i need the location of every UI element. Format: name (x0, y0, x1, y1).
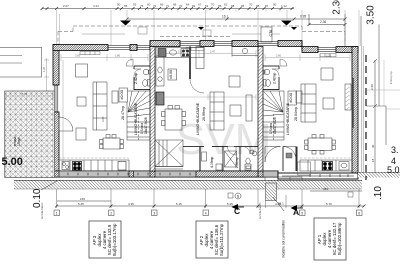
top wall AP1 right band (302, 47, 318, 53)
AP3 sofa (93, 82, 107, 130)
svg-text:2.47: 2.47 (210, 50, 216, 54)
AP1 stove (323, 162, 333, 171)
main bottom dim line (57, 205, 364, 207)
svg-text:4.35: 4.35 (128, 202, 134, 206)
AP2 armchair (229, 76, 240, 87)
svg-text:1.12: 1.12 (281, 4, 287, 8)
AP1 sink (339, 162, 349, 171)
svg-text:2.30: 2.30 (332, 0, 343, 15)
AP3 WC walls (134, 66, 150, 90)
top wall middle raised band (150, 41, 180, 47)
entry doors (265, 147, 281, 163)
svg-text:26.99mp: 26.99mp (202, 107, 206, 121)
svg-text:SVM: SVM (176, 115, 271, 164)
svg-text:55: 55 (133, 3, 137, 7)
AP1 WC walls (263, 66, 279, 90)
kitchen upper cabinets dashed (59, 157, 129, 159)
svg-text:98: 98 (231, 4, 235, 8)
AP2 coffee table (230, 105, 241, 116)
svg-text:66: 66 (160, 3, 164, 7)
svg-text:5.15: 5.15 (176, 202, 182, 206)
svg-text:1: 1 (56, 212, 58, 216)
left vertical dim (44, 58, 49, 91)
AP3 coffee table (77, 97, 86, 106)
AP3 level box (119, 88, 128, 102)
svg-text:3.: 3. (391, 145, 399, 155)
porch foundation (266, 183, 277, 201)
svg-text:2.42mp: 2.42mp (273, 73, 277, 84)
svg-text:16.1: 16.1 (222, 15, 228, 19)
AP2 kitchen counter top (156, 48, 204, 58)
svg-text:90: 90 (273, 3, 277, 7)
AP1 tv unit (345, 84, 351, 110)
svg-text:5.45: 5.45 (78, 202, 84, 206)
section marker C (232, 204, 245, 216)
svg-text:16x17.5x28: 16x17.5x28 (273, 117, 277, 134)
svg-text:2.36: 2.36 (320, 20, 326, 24)
svg-text:Su(b)=103.17mp: Su(b)=103.17mp (112, 223, 117, 256)
svg-text:1.80: 1.80 (115, 54, 121, 58)
AP2 stairs lower flight (155, 140, 183, 169)
svg-text:5.00: 5.00 (2, 156, 23, 168)
svg-text:2.60: 2.60 (276, 54, 282, 58)
svg-text:72: 72 (153, 4, 157, 8)
svg-text:3.95: 3.95 (101, 116, 105, 122)
soil hatch band (14, 181, 362, 190)
svg-text:3: 3 (153, 212, 155, 216)
AP1 armchair (321, 68, 333, 80)
table AP1 (314, 218, 346, 260)
svg-text:LIVING+BUCATARIE: LIVING+BUCATARIE (196, 102, 200, 135)
AP2 sofa (210, 92, 224, 130)
svg-text:90: 90 (117, 3, 121, 7)
AP1 WC fixtures (264, 69, 271, 86)
svg-text:71: 71 (166, 4, 170, 8)
svg-text:87: 87 (265, 4, 269, 8)
AP3 armchair (76, 64, 88, 77)
svg-text:LIVING+BUCATARIE: LIVING+BUCATARIE (134, 102, 138, 135)
left road lines (0, 55, 22, 57)
svg-text:67: 67 (198, 3, 202, 7)
left exterior wall (53, 45, 59, 86)
roof overhang dashed outline (58, 26, 345, 46)
svg-text:2.42mp: 2.42mp (134, 73, 138, 84)
top dimension ticks (41, 7, 294, 10)
AP1 level box (288, 91, 297, 105)
shoe cabinet (286, 153, 292, 158)
party wall 2 (258, 47, 263, 172)
svg-text:limita prop.: limita prop. (389, 70, 393, 84)
svg-text:64: 64 (186, 3, 190, 7)
svg-text:165: 165 (80, 197, 85, 201)
svg-text:sort de beton: sort de beton (40, 202, 44, 219)
svg-text:4: 4 (205, 212, 207, 216)
svg-text:70: 70 (249, 3, 253, 7)
right vertical dim lines (309, 14, 384, 177)
svg-text:4.40: 4.40 (275, 202, 281, 206)
AP2 dining table (162, 106, 186, 131)
AP1 coffee table (323, 98, 334, 109)
AP2 bath fixtures (202, 151, 257, 168)
party wall foundations through bottom wall (150, 171, 155, 177)
porch slab (298, 162, 311, 175)
svg-text:Su(b)=102.88mp: Su(b)=102.88mp (337, 222, 342, 255)
section marker A (291, 205, 304, 217)
left neighbour rectangle (0, 47, 42, 77)
AP1 WC door (272, 69, 279, 77)
fence double line right (362, 46, 364, 172)
right exterior wall (352, 47, 358, 178)
AP2 bath extra fixtures (216, 150, 254, 170)
svg-text:62: 62 (224, 3, 228, 7)
svg-text:0.95: 0.95 (300, 15, 306, 19)
window niche hatch AP1 (346, 87, 350, 110)
section circle S (235, 193, 241, 199)
svg-text:18: 18 (371, 158, 375, 162)
AP1 cabinet (296, 91, 302, 103)
dark glazing strip in right wall (352, 78, 354, 128)
svg-text:88: 88 (256, 4, 260, 8)
porch right wall (296, 147, 298, 172)
svg-text:CTA: CTA (269, 29, 273, 37)
svg-text:63: 63 (205, 4, 209, 8)
AP3 WC fixtures (143, 69, 150, 86)
neighbour outline right (366, 106, 386, 145)
svg-text:65: 65 (124, 4, 128, 8)
svg-text:5.25: 5.25 (227, 202, 233, 206)
svg-text:6: 6 (358, 212, 360, 216)
svg-text:.10: .10 (373, 186, 384, 200)
svg-text:1.20: 1.20 (42, 66, 46, 72)
interior dimension chains (59, 50, 350, 168)
svg-text:30: 30 (371, 144, 375, 148)
svg-text:69: 69 (192, 4, 196, 8)
AP1 kitchen counter (300, 160, 352, 171)
svg-text:70: 70 (179, 4, 183, 8)
north / vent triangles (120, 21, 131, 26)
AP3 WC door (134, 69, 141, 77)
svg-text:sort de beton: sort de beton (258, 202, 262, 219)
svg-text:95: 95 (241, 4, 245, 8)
svg-text:68: 68 (173, 3, 177, 7)
right terrain (358, 172, 400, 174)
svg-text:3.50: 3.50 (366, 5, 377, 25)
AP2 shower (225, 151, 237, 167)
AP1 sofa (301, 84, 316, 122)
radiators (80, 48, 336, 57)
AP3 stove (73, 162, 82, 171)
AP2 hall door arc (190, 79, 204, 93)
AP3 cabinet (112, 91, 118, 103)
AP2 kitchen counter right (196, 47, 258, 69)
svg-text:75: 75 (140, 4, 144, 8)
interior door arcs (228, 147, 237, 156)
AP1 stairs (263, 91, 284, 140)
svg-text:Su(b)=111.27mp: Su(b)=111.27mp (219, 223, 224, 256)
AP2 bath block (183, 147, 258, 172)
svg-text:65: 65 (218, 4, 222, 8)
AP3 kitchen counter (59, 160, 129, 171)
property dashed line right (365, 55, 367, 180)
CTA chimney label box (261, 27, 272, 42)
terrace paving (5, 91, 55, 178)
AP3 terrace door arc (59, 117, 73, 131)
svg-text:60: 60 (147, 3, 151, 7)
bottom wall (53, 171, 278, 177)
table AP2 (196, 221, 228, 258)
svg-text:16x17.5x28: 16x17.5x28 (144, 117, 148, 134)
svg-text:2: 2 (110, 212, 112, 216)
party wall 1 (150, 47, 155, 172)
svg-text:±0.00: ±0.00 (119, 89, 124, 100)
terrain line (14, 180, 362, 182)
bottom window mullions (68, 173, 348, 178)
AP2 kitchen tall unit (156, 92, 164, 105)
AP3 fridge (118, 162, 126, 171)
svg-text:2.50mp: 2.50mp (235, 157, 239, 168)
terrace dim line (6, 95, 53, 97)
AP3 stairs (127, 91, 150, 140)
svg-text:incalzire sol cu termosifon: incalzire sol cu termosifon (282, 220, 286, 258)
AP3 side table (76, 128, 86, 140)
svg-text:4.09mp: 4.09mp (210, 157, 214, 168)
svg-text:±0.00: ±0.00 (288, 92, 293, 103)
svg-text:LIVING+BUCATARIE: LIVING+BUCATARIE (286, 102, 290, 135)
svg-text:5.70: 5.70 (326, 202, 332, 206)
AP2 partition wall (189, 47, 191, 80)
small label boxes above walls (138, 27, 147, 34)
AP2 wc fixtures (158, 67, 162, 81)
neighbour horizontals (367, 89, 400, 91)
svg-text:28.04mp: 28.04mp (294, 107, 298, 121)
top dimension tiny numbers (63, 3, 287, 9)
svg-text:2.60: 2.60 (370, 84, 374, 90)
step between bands (149, 41, 151, 51)
sub dim line (57, 200, 111, 202)
AP3 dining table (100, 135, 124, 150)
left wall window (54, 85, 58, 112)
grid extension lines (57, 189, 360, 208)
svg-text:70: 70 (211, 3, 215, 7)
svg-text:5.0: 5.0 (387, 165, 400, 175)
AP2 tv unit (246, 95, 252, 121)
svg-text:3.65: 3.65 (75, 54, 81, 58)
top extension lines (57, 10, 360, 46)
AP1 dining table (305, 135, 336, 155)
svg-text:5.02: 5.02 (22, 92, 28, 96)
grid bubbles (54, 210, 362, 216)
utility bottom wall hatch (196, 171, 258, 177)
svg-text:5: 5 (301, 212, 303, 216)
svg-text:2.07: 2.07 (63, 4, 69, 8)
table AP3 (89, 221, 121, 258)
svg-text:383: 383 (323, 187, 328, 191)
comb stubs below dim line (120, 9, 280, 13)
svg-text:±0.00: ±0.00 (169, 70, 173, 79)
svg-text:3.44: 3.44 (93, 4, 99, 8)
svg-text:28.47mp: 28.47mp (121, 106, 125, 120)
second dimension line (127, 19, 345, 25)
porch steps (265, 177, 302, 181)
top wall AP3 (left band) (53, 45, 108, 51)
top main dimension line (42, 8, 294, 10)
AP2 level box (168, 69, 177, 80)
svg-text:15mp: 15mp (17, 137, 21, 146)
